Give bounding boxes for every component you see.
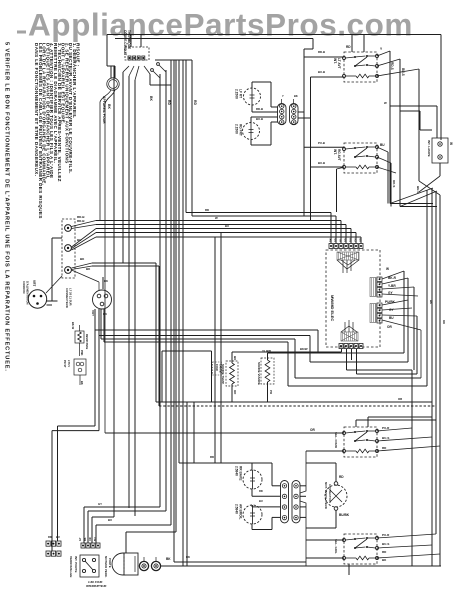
right bus column C [439,195,441,566]
element disconnect plug A [278,104,287,125]
svg-text:BU-B: BU-B [256,117,263,121]
svg-text:BK: BK [149,96,153,101]
wire riser L1 [303,49,305,216]
svg-text:RD: RD [205,208,209,212]
wire drops to latch cluster [84,506,160,508]
clock bottom connector strip [339,344,343,349]
surface switch 2 pilot resistor [356,165,369,169]
svg-text:BU-S: BU-S [382,542,389,546]
svg-text:RD-B: RD-B [77,219,85,223]
svg-text:RG FRT: RG FRT [239,124,243,136]
svg-text:COUPE-CIRCUIT: COUPE-CIRCUIT [123,30,127,55]
svg-text:INT.: INT. [333,58,337,64]
svg-text:INTERRUPTEUR: INTERRUPTEUR [86,584,106,588]
svg-text:PORTE: PORTE [108,558,112,568]
light switch wires [436,106,438,138]
svg-text:BU-S: BU-S [401,68,405,76]
svg-text:RD-B: RD-B [256,107,263,111]
svg-text:RD-B: RD-B [318,50,325,54]
svg-text:RD-S: RD-S [392,180,396,187]
svg-text:BU: BU [94,537,97,541]
svg-text:RD: RD [334,238,338,242]
svg-text:LT AVT: LT AVT [337,58,341,69]
thermal limiter dashed box [125,47,149,60]
svg-text:LF RT: LF RT [239,89,243,98]
element RF supply loop [250,117,252,123]
terminal block dashed enclosure [62,219,75,278]
oven relay lower wires [306,539,344,541]
svg-text:PU-B: PU-B [318,141,325,145]
svg-text:SEL. FOUR: SEL. FOUR [334,432,338,449]
surface switch 1 contacts [343,57,346,60]
svg-text:CORDON: CORDON [22,281,26,293]
bake element heating element circle [243,470,262,489]
svg-text:RD: RD [339,475,344,479]
svg-text:BU: BU [380,143,385,147]
svg-text:D'ALIMENTATION: D'ALIMENTATION [26,281,30,304]
clock relay fan-out wires upper [382,271,404,279]
svg-text:BU: BU [389,316,394,320]
surface switch 2 contacts [343,148,346,151]
svg-text:BK: BK [429,300,433,304]
svg-text:BU-S: BU-S [416,186,420,193]
meat probe sensor [261,358,274,384]
svg-text:RD: RD [193,100,197,105]
svg-text:OR: OR [359,238,363,242]
svg-text:BK: BK [166,557,171,561]
svg-text:CONVECTION: CONVECTION [328,484,332,503]
svg-text:BK/W: BK/W [300,347,308,351]
clock dashed enclosure [326,250,380,347]
svg-text:BK-R: BK-R [388,276,397,280]
svg-text:SEL. GRIL: SEL. GRIL [334,539,338,554]
svg-text:2.5840: 2.5840 [235,466,239,476]
strain relief grommet [107,78,119,90]
svg-text:BU: BU [259,499,263,503]
terminal fan wires N [72,229,97,248]
terminal L1 [65,225,72,232]
svg-text:Y-BR: Y-BR [388,284,396,288]
surface switch 2 dashed enclosure [344,143,377,173]
svg-text:AR BROIL: AR BROIL [239,504,243,519]
cam switch B [151,561,160,570]
svg-text:GY: GY [79,537,82,541]
svg-text:W: W [386,267,389,271]
oven relay upper pilot resistor [356,449,369,453]
svg-text:RD: RD [48,535,52,539]
surface switch 1 supply drops [351,35,353,53]
element disconnect plug B [290,104,299,125]
svg-text:PU-R: PU-R [382,533,390,537]
surface element LF heating element circle [244,88,261,105]
svg-text:5 VERIFIER LE BON FONCTIONNEME: 5 VERIFIER LE BON FONCTIONNEMENT DE L'AP… [4,42,10,372]
element LF supply loop [251,82,253,88]
strip outputs [298,111,305,113]
wires from left to oven [174,561,306,563]
oven relay upper dashed enclosure [344,427,377,457]
svg-text:PU: PU [269,390,273,394]
svg-text:BK: BK [104,279,108,283]
door frame resistor [75,331,84,343]
svg-text:BU: BU [108,518,112,522]
clock relay pins upper [377,277,382,281]
surface switch 2 output wires [377,147,388,152]
surface switch 1 pilot resistor [356,74,369,78]
svg-text:OR: OR [310,428,315,432]
oven disconnect plug A [281,481,289,523]
cluster verticals down [113,66,115,517]
aux verticals bottom band [186,402,188,566]
aux row feed wires [94,309,96,426]
svg-text:PU-R: PU-R [382,426,390,430]
svg-text:L7 20 11 SUR: L7 20 11 SUR [69,288,73,306]
svg-text:INT. LAMPE: INT. LAMPE [427,140,431,157]
supply connector circle [93,290,112,309]
oven light switch [432,138,448,163]
svg-text:2.1500: 2.1500 [235,89,239,99]
bake element supply loop [251,463,253,470]
svg-text:BK: BK [329,238,333,242]
svg-text:PU/BK: PU/BK [385,300,396,304]
oven relay lower contacts [343,539,346,542]
door lock motor [112,553,134,575]
svg-text:RD: RD [167,100,171,105]
wire riser L2 [310,77,312,221]
svg-text:BK: BK [84,537,87,541]
clock bottom pin wires [341,349,343,352]
svg-text:OR: OR [387,325,392,329]
svg-text:RR BAKE: RR BAKE [239,466,243,481]
oven chassis outline [300,451,306,566]
clock relay fan-out wires lower [382,300,408,305]
surface switch 1 dashed enclosure [344,52,377,82]
svg-text:YL/RD: YL/RD [262,349,272,353]
cam switch A [139,561,148,570]
clock relay pins lower [377,303,382,307]
svg-text:RESISTANCE: RESISTANCE [85,334,88,350]
receptacle leads [51,238,53,301]
svg-text:MW/MD ELEC: MW/MD ELEC [330,295,335,321]
svg-text:RD: RD [346,45,351,49]
wire second bus [115,38,313,40]
svg-text:RD-S: RD-S [390,62,394,70]
svg-text:LTS V: LTS V [67,360,71,367]
svg-text:PNK: PNK [80,350,84,356]
svg-text:OR: OR [398,397,402,401]
latch terminal strip [81,543,85,548]
terminal fan wires L2 [72,263,93,268]
cord aux connector rows [46,541,50,546]
cord receptacle [28,290,46,308]
oven temp sensor [226,361,238,386]
mid bus dashed boundary [159,405,436,407]
svg-text:LUM. FOUR: LUM. FOUR [88,580,103,584]
terminal N [65,245,72,252]
svg-text:BK: BK [186,555,190,559]
svg-text:RD: RD [344,238,348,242]
clock top harness blob [337,252,359,260]
svg-text:SONDE VIANDE: SONDE VIANDE [257,362,261,385]
svg-text:APPAREIL POUR: APPAREIL POUR [102,96,106,124]
svg-text:RG AVT: RG AVT [337,149,341,161]
svg-text:BU: BU [349,238,353,242]
crossover X [419,181,440,195]
svg-text:RD: RD [210,455,214,459]
svg-text:OR: OR [89,537,92,541]
oven element wires to chassis [300,485,306,487]
staircase to right columns [317,330,319,353]
clock top connector strip [329,244,333,249]
svg-text:PR ST: PR ST [63,360,67,368]
wire top bus L1 [107,34,441,36]
terminal L2 [65,267,72,274]
svg-text:DANS LE FONCTIONNEMENT ET ETRE: DANS LE FONCTIONNEMENT ET ETRE DANGEREUX… [34,43,39,176]
clock bottom harness blob [341,332,358,341]
svg-text:RD: RD [442,320,446,324]
oven relay upper output wires [377,428,412,431]
wire left feed [150,84,171,86]
limiter fan-out wires [123,66,129,72]
svg-text:W: W [449,142,453,145]
broil element heating element circle [243,505,262,524]
bridge loop over label [161,351,163,402]
surface switch 1 output wires [377,51,390,56]
wire top bus drop right [440,35,442,141]
switch contacts [151,69,154,72]
svg-text:2.1500: 2.1500 [235,124,239,134]
oven relay upper risers [355,420,357,427]
cord wires through grommet [110,66,112,78]
harness label box [213,362,222,375]
right bus column A [431,188,433,566]
svg-text:BK: BK [80,381,84,385]
svg-text:W: W [215,216,218,220]
svg-text:BK: BK [107,104,111,109]
oven relay lower dashed enclosure [344,534,377,564]
svg-text:INT. PORTE: INT. PORTE [74,556,78,573]
svg-text:2.5840: 2.5840 [235,504,239,514]
convection motor [325,485,347,507]
oven relay lower pilot resistor [356,556,369,560]
right bus column B [435,191,437,534]
svg-text:BK: BK [294,94,298,98]
svg-text:AppliancePartsPros.com: AppliancePartsPros.com [28,7,413,43]
svg-text:THERMIQUE: THERMIQUE [127,30,131,49]
svg-text:BU-B: BU-B [318,161,325,165]
wire top bus drop left [106,35,108,67]
convection wires [335,463,337,482]
lower-left feed bundle [95,329,318,331]
svg-text:BU: BU [77,238,81,242]
svg-text:BU-S: BU-S [382,436,389,440]
bake feed risers [214,237,216,463]
svg-text:VRT: VRT [91,310,95,316]
svg-text:CONNECTEUR: CONNECTEUR [65,288,69,308]
switch 2 feeds [304,146,344,148]
svg-text:VRT: VRT [32,280,36,286]
door lock switch box [80,555,99,577]
oven relay upper contacts [343,432,346,435]
bake feed from left [179,462,252,464]
right bus column short [426,190,428,386]
svg-text:GY: GY [98,502,102,506]
svg-text:BK-W: BK-W [71,322,75,330]
OR wire to lower oven switch [105,432,344,434]
svg-text:RD: RD [259,489,263,493]
clock feed drops [330,213,332,244]
svg-text:VERROUILLEE: VERROUILLEE [69,556,73,577]
mid bus solid [156,401,432,403]
bundle riser to switch 2 [336,169,338,212]
svg-text:Y: Y [282,94,284,98]
svg-text:INT.: INT. [333,149,337,155]
terminal fan wires L1 [72,221,97,227]
svg-text:BU: BU [225,224,229,228]
connector circle leads [102,277,104,289]
svg-text:MOTEUR VERR.: MOTEUR VERR. [104,556,108,578]
svg-text:BU/BK: BU/BK [339,513,350,517]
oven disconnect plug B [292,481,300,523]
svg-text:MOT. VENTILATEUR: MOT. VENTILATEUR [324,482,328,509]
broil element supply loop [251,505,253,507]
svg-text:BU-B: BU-B [318,70,325,74]
svg-text:GY: GY [354,238,358,242]
surface element RF heating element circle [243,123,260,140]
pilot light component [74,359,86,375]
svg-text:W: W [384,101,387,105]
